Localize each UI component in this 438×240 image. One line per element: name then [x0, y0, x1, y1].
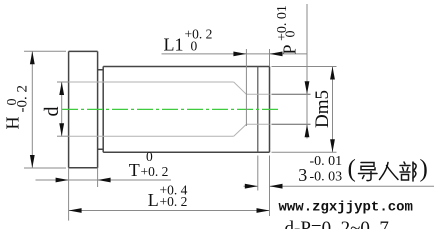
svg-text:+0. 2: +0. 2: [141, 164, 169, 179]
svg-text:L: L: [148, 190, 159, 210]
svg-text:L1: L1: [164, 35, 184, 55]
svg-text:-0. 2: -0. 2: [14, 85, 30, 113]
svg-text:+0. 2: +0. 2: [185, 27, 213, 42]
svg-text:-0. 01: -0. 01: [310, 154, 343, 169]
svg-text:): ): [420, 156, 428, 183]
svg-text:3: 3: [298, 165, 307, 185]
svg-text:-0. 03: -0. 03: [310, 170, 343, 185]
svg-text:P: P: [280, 44, 300, 54]
svg-text:+0. 2: +0. 2: [160, 194, 188, 209]
svg-text:+0. 01: +0. 01: [275, 5, 290, 41]
svg-text:(: (: [348, 156, 356, 183]
svg-text:H: H: [3, 117, 23, 130]
svg-text:T: T: [129, 160, 140, 180]
svg-text:0: 0: [146, 149, 153, 164]
svg-text:0: 0: [191, 39, 198, 54]
svg-text:d: d: [41, 107, 63, 117]
svg-text:Dm5: Dm5: [312, 90, 333, 128]
svg-text:www.zgxjjypt.com: www.zgxjjypt.com: [279, 200, 413, 216]
svg-text:d-P=0. 2~0. 7: d-P=0. 2~0. 7: [285, 218, 389, 229]
